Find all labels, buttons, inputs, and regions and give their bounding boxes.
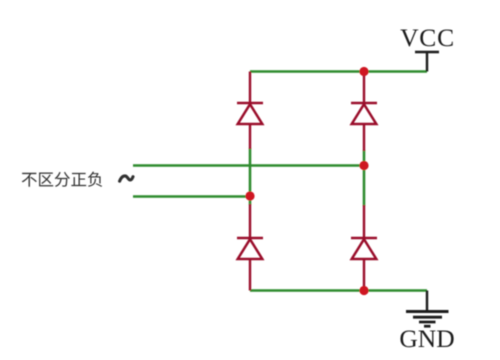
wire top bus (bridge top to VCC) — [250, 70, 427, 73]
wire AC input upper — [133, 164, 364, 167]
wire AC input lower — [133, 195, 250, 198]
diode D3 (bottom-left) — [237, 204, 263, 291]
svg-text:VCC: VCC — [400, 23, 455, 52]
diode D1 (top-left) — [237, 72, 263, 150]
wire left column upper (between D1 and node) — [249, 148, 252, 205]
AC source symbol ~ — [120, 176, 133, 181]
wire bottom bus (bridge bottom to GND) — [250, 289, 427, 292]
junction node (AC upper / right column) — [359, 161, 368, 170]
junction node (top bus / D2) — [359, 67, 368, 76]
ground symbol — [406, 291, 449, 327]
junction node (bottom bus / D4) — [359, 286, 368, 295]
svg-text:GND: GND — [399, 324, 454, 353]
diode D4 (bottom-right) — [351, 205, 377, 291]
junction node (AC lower / left column) — [245, 191, 254, 200]
VCC power symbol — [415, 52, 439, 72]
AC input label 不区分正负 — [22, 172, 102, 187]
diode D2 (top-right) — [351, 72, 377, 152]
wire right column (between D2 and node) — [363, 150, 366, 206]
